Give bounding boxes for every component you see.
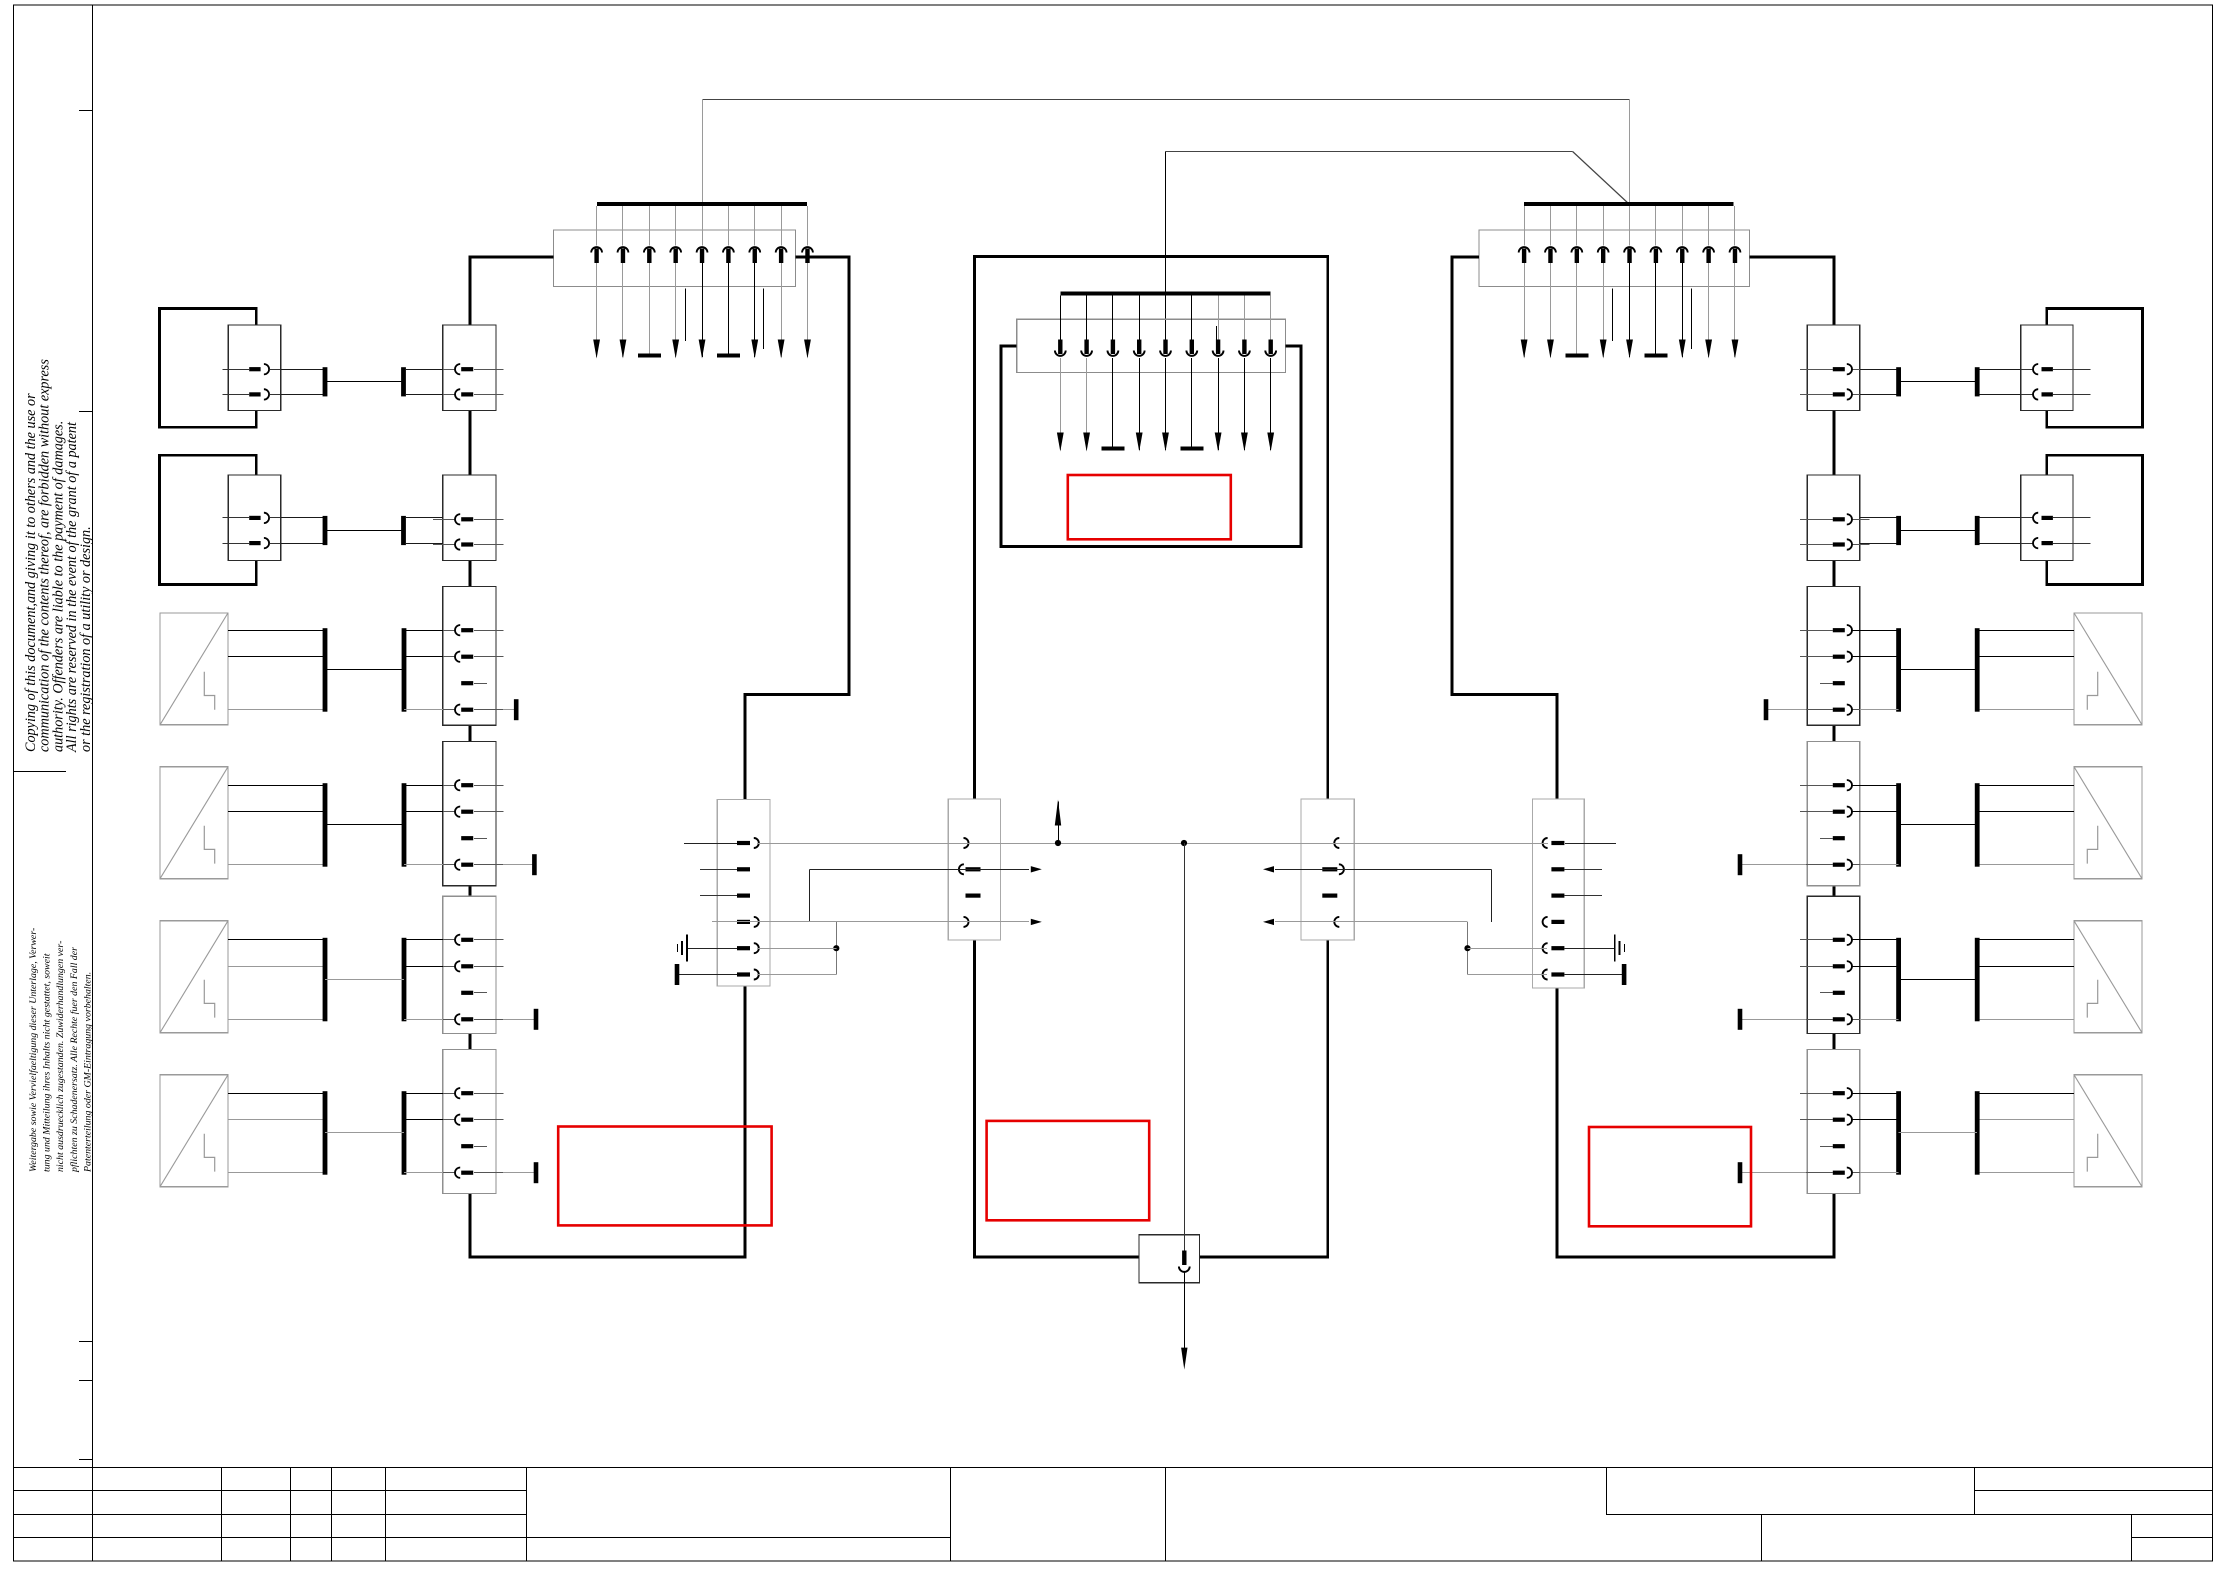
svg-text:Weitergabe sowie Vervielfaelti: Weitergabe sowie Vervielfaeltigung diese…	[28, 928, 39, 1172]
svg-text:Patenterteilung oder GM-Eintra: Patenterteilung oder GM-Eintragung vorbe…	[82, 972, 93, 1173]
svg-text:pflichten zu Schadenersatz. Al: pflichten zu Schadenersatz. Alle Rechte …	[69, 947, 80, 1173]
svg-text:nicht ausdruecklich zugestand: nicht ausdruecklich zugestanden. Zuwider…	[55, 941, 66, 1172]
svg-text:tung und Mitteilung ihres Inha: tung und Mitteilung ihres Inhalts nicht …	[42, 953, 53, 1172]
svg-text:or the registration of a utili: or the registration of a utility or desi…	[78, 526, 94, 752]
